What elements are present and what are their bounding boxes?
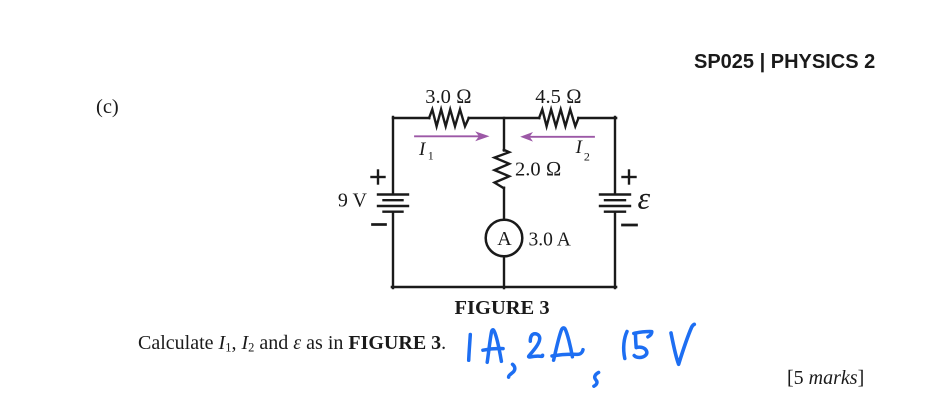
label I2 [575,137,590,163]
handwritten answer 15 [624,332,652,359]
svg-text:2: 2 [584,150,590,164]
svg-text:1: 1 [428,149,434,163]
minus sign right battery [623,224,637,227]
current arrow I1 [415,131,490,141]
plus sign right battery [623,171,636,184]
handwritten answer 1A [469,330,503,363]
svg-text:3.0 Ω: 3.0 Ω [425,86,472,108]
handwritten comma 2 [594,372,599,386]
wire bottom [392,286,616,288]
wire middle branch lower [503,256,505,288]
battery EMF plates [600,195,630,212]
svg-text:A: A [497,228,512,250]
handwritten answer V [671,324,694,364]
battery 9V plates [378,195,408,212]
wire right branch lower [614,213,616,288]
svg-text:I: I [575,137,584,158]
part label (c) [96,97,119,118]
resistor R2 4.5 ohm [539,109,578,126]
svg-text:9 V: 9 V [338,190,368,212]
svg-text:3.0 A: 3.0 A [529,229,571,250]
wire middle branch upper [503,118,505,151]
wire left branch lower [392,213,394,288]
resistor R3 2.0 ohm [495,150,510,188]
label I1 [418,139,434,162]
handwritten comma 1 [509,364,515,377]
wire left branch upper [392,117,394,194]
wire top-left segment [393,117,429,119]
handwritten answer 2A [529,328,583,360]
plus sign left battery [372,171,385,184]
wire top-middle segment [469,117,540,119]
wire top-right segment [578,117,616,119]
svg-text:ε: ε [638,180,651,216]
minus sign left battery [373,223,386,226]
header course code [694,52,875,72]
question sentence [138,333,446,353]
figure caption [455,298,550,318]
resistor R1 3.0 ohm [429,109,469,126]
svg-text:4.5 Ω: 4.5 Ω [535,86,582,108]
current arrow I2 [520,132,594,142]
svg-text:2.0 Ω: 2.0 Ω [515,159,562,181]
ammeter A [486,220,523,257]
marks [787,368,864,388]
wire middle branch mid [503,188,505,220]
svg-text:I: I [418,139,427,160]
wire right branch upper [614,117,616,194]
